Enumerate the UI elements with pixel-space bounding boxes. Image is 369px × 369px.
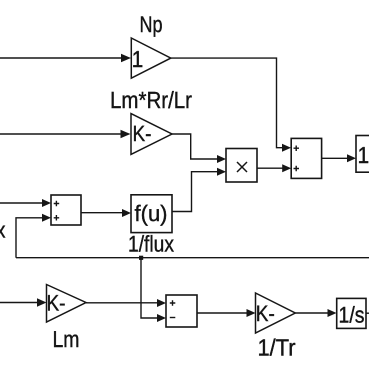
svg-text:1/Tr: 1/Tr — [258, 335, 296, 361]
svg-text:1: 1 — [132, 47, 144, 72]
svg-text:1/s: 1/s — [339, 303, 365, 328]
svg-text:Lm: Lm — [53, 327, 80, 352]
svg-text:1/flux: 1/flux — [128, 232, 174, 257]
svg-text:K-: K- — [133, 122, 152, 146]
svg-text:x: x — [0, 218, 6, 243]
svg-text:Np: Np — [140, 13, 163, 38]
svg-text:1: 1 — [358, 143, 369, 168]
svg-text:K-: K- — [256, 302, 275, 327]
svg-text:K-: K- — [47, 291, 66, 316]
svg-text:f(u): f(u) — [135, 202, 168, 227]
svg-text:Lm*Rr/Lr: Lm*Rr/Lr — [110, 88, 192, 114]
